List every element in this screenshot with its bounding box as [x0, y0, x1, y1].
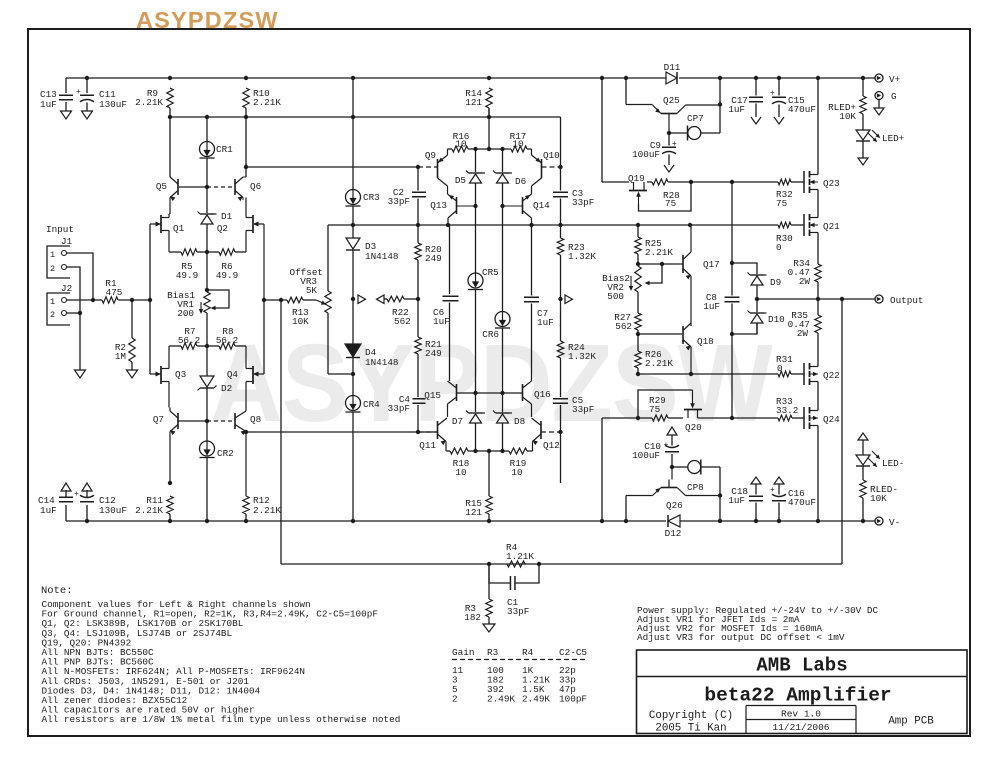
- transistor Q14: [522, 197, 524, 214]
- wire base rail y393: [457, 392, 523, 394]
- transistor Q18: [682, 326, 684, 344]
- transistor Q15: [456, 384, 458, 401]
- watermark center: [210, 323, 773, 445]
- resistor R21: [415, 337, 421, 354]
- svg-text:470uF: 470uF: [788, 104, 816, 115]
- svg-text:Output: Output: [890, 295, 923, 306]
- node R7/R8: [205, 344, 209, 348]
- resistor R32: [778, 179, 791, 185]
- svg-text:Q17: Q17: [703, 259, 720, 270]
- node Q26 collector: [670, 465, 674, 469]
- wire J1 pin1 to R1: [67, 253, 94, 300]
- svg-text:C2-C5: C2-C5: [559, 647, 587, 658]
- svg-text:121: 121: [465, 97, 482, 108]
- svg-text:33pF: 33pF: [388, 196, 410, 207]
- svg-text:D1: D1: [221, 211, 233, 222]
- node Q2/Q4 gates: [262, 298, 266, 302]
- wire C8 column: [731, 182, 733, 296]
- svg-text:Q23: Q23: [823, 178, 840, 189]
- wire y167 Q6 to Q9: [246, 166, 418, 168]
- ground below J2: [75, 370, 86, 378]
- wire Q26 right: [686, 495, 721, 497]
- transistor Q2: [252, 215, 254, 233]
- resistor R11: [168, 481, 172, 485]
- LED+ diode: [862, 114, 864, 130]
- current source CR3: [352, 78, 354, 141]
- arrow to V- below C9: [668, 160, 670, 165]
- svg-text:0: 0: [777, 363, 783, 374]
- svg-text:130uF: 130uF: [99, 505, 127, 516]
- svg-text:75: 75: [776, 198, 787, 209]
- svg-text:562: 562: [394, 316, 411, 327]
- transistor Q17: [682, 255, 684, 273]
- svg-text:1uF: 1uF: [433, 316, 450, 327]
- svg-text:Q16: Q16: [534, 389, 551, 400]
- resistor R16: [452, 146, 468, 152]
- svg-text:Q11: Q11: [419, 440, 436, 451]
- current source CR5: [468, 273, 483, 288]
- wire gate rail y418 right: [698, 417, 779, 419]
- svg-text:2: 2: [452, 694, 458, 705]
- resistor R8: [235, 345, 246, 347]
- resistor R18: [446, 450, 450, 452]
- svg-text:500: 500: [607, 291, 624, 302]
- svg-text:AMB Labs: AMB Labs: [756, 655, 847, 677]
- capacitor C11: [86, 78, 88, 93]
- transistor Q13: [456, 197, 458, 214]
- svg-text:Input: Input: [46, 224, 74, 235]
- svg-text:Q9: Q9: [425, 150, 436, 161]
- wire Q1 gate column: [149, 224, 151, 374]
- transistor Q21 (N-MOSFET): [803, 214, 805, 236]
- node R27/R26: [636, 332, 640, 336]
- node Q18 emitter on rail: [689, 372, 693, 376]
- wire V+ rail: [66, 77, 666, 79]
- svg-text:G: G: [891, 91, 897, 102]
- svg-text:R3: R3: [487, 647, 499, 658]
- node R28 right: [689, 180, 693, 184]
- svg-text:249: 249: [425, 348, 442, 359]
- resistor R6: [235, 251, 246, 253]
- capacitor C6 column: [449, 225, 451, 294]
- wire output: [757, 298, 875, 300]
- resistor R17: [511, 146, 527, 152]
- svg-text:LED+: LED+: [882, 133, 905, 144]
- svg-text:Note:: Note:: [41, 585, 73, 597]
- svg-text:+: +: [664, 441, 669, 450]
- resistor R30: [778, 222, 791, 228]
- wire rail y149: [448, 148, 453, 150]
- svg-text:1.32K: 1.32K: [568, 251, 596, 262]
- svg-text:Q3: Q3: [175, 369, 186, 380]
- svg-text:R4: R4: [522, 647, 534, 658]
- svg-text:75: 75: [665, 198, 676, 209]
- svg-text:1uF: 1uF: [537, 317, 554, 328]
- svg-text:+: +: [770, 89, 775, 98]
- ground below C11: [82, 111, 93, 119]
- diode D11: [666, 72, 677, 84]
- resistor R20: [417, 225, 419, 243]
- title block rev box: [746, 705, 856, 707]
- svg-text:1uF: 1uF: [703, 301, 720, 312]
- svg-text:+: +: [770, 486, 775, 495]
- resistor R28: [647, 181, 652, 183]
- svg-text:100uF: 100uF: [632, 149, 660, 160]
- wire x602 top column: [601, 78, 603, 182]
- svg-text:CR2: CR2: [217, 448, 234, 459]
- capacitor C7 column: [531, 225, 533, 296]
- node Q7/Q8 bases: [205, 419, 209, 423]
- resistor R27: [635, 313, 641, 330]
- svg-text:Q20: Q20: [685, 422, 702, 433]
- terminal Output: [875, 295, 883, 303]
- svg-text:Q15: Q15: [424, 390, 441, 401]
- svg-text:1M: 1M: [115, 351, 126, 362]
- resistor R22: [384, 298, 387, 300]
- svg-text:D10: D10: [768, 314, 785, 325]
- capacitor C12: [86, 505, 88, 521]
- svg-text:2.21K: 2.21K: [645, 247, 673, 258]
- svg-text:56.2: 56.2: [216, 335, 238, 346]
- diode D4: [352, 299, 354, 344]
- svg-text:Q1: Q1: [173, 223, 185, 234]
- node R20/R22: [416, 297, 420, 301]
- wire J1 pin2 / J2 pin2 ground: [67, 267, 81, 370]
- arrow from V+ above C10: [667, 427, 677, 435]
- diode D12: [668, 515, 680, 527]
- wire R14 to rail149: [488, 108, 490, 149]
- current source CP7: [669, 132, 688, 134]
- svg-text:2.21K: 2.21K: [645, 358, 673, 369]
- svg-text:33pF: 33pF: [572, 197, 594, 208]
- terminal V+: [875, 74, 883, 82]
- resistor R9: [167, 88, 173, 108]
- wire Q18 base: [638, 333, 682, 335]
- resistor R12: [243, 496, 249, 514]
- svg-text:Rev 1.0: Rev 1.0: [781, 709, 821, 720]
- net arrow right at x358: [358, 295, 366, 304]
- svg-text:Q18: Q18: [697, 336, 714, 347]
- svg-text:121: 121: [465, 507, 482, 518]
- capacitor C3: [560, 167, 562, 191]
- svg-text:10: 10: [512, 139, 523, 150]
- transistor Q7: [177, 413, 179, 429]
- svg-text:Adjust VR3 for output DC offse: Adjust VR3 for output DC offset < 1mV: [637, 632, 845, 643]
- transistor Q25: [661, 113, 677, 115]
- resistor RLED-: [860, 480, 866, 498]
- wire gate rail y182 right: [691, 181, 778, 183]
- svg-text:D9: D9: [770, 277, 781, 288]
- capacitor C8: [731, 304, 733, 419]
- current source CR6: [495, 312, 510, 327]
- LED- diode: [856, 455, 870, 465]
- wire Q25 base drop: [625, 78, 627, 105]
- ground arrow above C12: [82, 483, 92, 491]
- current source CR4: [352, 374, 354, 396]
- diode D10: [756, 299, 758, 312]
- svg-text:D6: D6: [515, 176, 526, 187]
- svg-text:Q22: Q22: [823, 370, 840, 381]
- wire gate rail y418: [602, 417, 652, 419]
- svg-text:LED-: LED-: [882, 458, 904, 469]
- wire Q26 left to V-: [626, 495, 653, 497]
- node Q13 base / D5: [473, 204, 477, 208]
- wire gate rail y225: [353, 224, 778, 226]
- svg-text:200: 200: [177, 308, 194, 319]
- node x720 rail tap: [719, 78, 721, 133]
- wire feedback left vertical: [280, 300, 282, 564]
- terminal G: [875, 92, 883, 100]
- transistor Q23 (N-MOSFET): [803, 171, 805, 193]
- svg-text:1: 1: [50, 297, 55, 307]
- svg-text:Amp PCB: Amp PCB: [888, 716, 934, 728]
- arrow above LED-: [858, 433, 868, 440]
- svg-text:1: 1: [50, 250, 55, 260]
- transistor Q9 (PNP cascode): [437, 159, 439, 178]
- capacitor C2: [417, 167, 419, 191]
- wire Q17 base: [638, 263, 683, 265]
- trimmer VR3: [316, 300, 324, 304]
- zener D2: [206, 346, 208, 376]
- node Q14 base / D6: [500, 204, 504, 208]
- transistor Q6: [234, 179, 236, 195]
- diode D3: [352, 225, 354, 238]
- transistor Q20 (JFET): [684, 409, 702, 411]
- capacitor C9: [668, 133, 670, 146]
- svg-text:100pF: 100pF: [559, 694, 587, 705]
- svg-text:56.2: 56.2: [178, 335, 200, 346]
- diode D9: [732, 263, 757, 274]
- capacitor C4: [417, 395, 419, 397]
- node Q5/Q6 bases: [205, 185, 209, 189]
- svg-text:10K: 10K: [870, 493, 887, 504]
- wire reference rail y117: [169, 108, 171, 117]
- resistor R29: [652, 415, 668, 421]
- zener D8: [502, 393, 504, 412]
- svg-text:2.49K: 2.49K: [522, 694, 550, 705]
- svg-text:Q14: Q14: [533, 200, 550, 211]
- node output R34/R35: [816, 297, 820, 301]
- trimmer VR2: [647, 264, 662, 283]
- svg-text:Q10: Q10: [543, 150, 560, 161]
- svg-text:CP8: CP8: [687, 482, 704, 493]
- svg-text:Q5: Q5: [156, 181, 167, 192]
- node R25/VR2: [636, 262, 640, 266]
- svg-text:+: +: [74, 490, 79, 499]
- svg-text:33pF: 33pF: [388, 403, 410, 414]
- svg-text:V+: V+: [889, 74, 901, 85]
- capacitor C16: [774, 477, 784, 484]
- node Q25 emitter: [667, 131, 671, 135]
- svg-text:Q4: Q4: [227, 369, 239, 380]
- svg-text:475: 475: [106, 287, 123, 298]
- capacitor C13: [65, 78, 67, 93]
- svg-text:1N4148: 1N4148: [365, 357, 398, 368]
- wire VAS input y432 left: [246, 431, 438, 433]
- svg-text:D8: D8: [514, 416, 525, 427]
- net arrow left at x376: [377, 295, 385, 304]
- wire drive rail y374: [638, 373, 778, 375]
- svg-text:2W: 2W: [799, 276, 811, 287]
- zener D6: [502, 149, 504, 172]
- capacitor C14: [65, 505, 67, 521]
- svg-text:Q12: Q12: [543, 440, 560, 451]
- svg-text:Q19: Q19: [628, 173, 645, 184]
- svg-text:V-: V-: [889, 517, 900, 528]
- svg-text:1N4148: 1N4148: [365, 251, 398, 262]
- svg-text:10: 10: [455, 139, 466, 150]
- svg-text:1uF: 1uF: [40, 99, 57, 110]
- transistor Q4: [252, 366, 254, 384]
- resistor R25: [637, 225, 639, 237]
- transistor Q26: [671, 467, 673, 480]
- current source CR1: [206, 117, 208, 142]
- resistor R23: [560, 225, 562, 238]
- trimmer VR1: [204, 292, 210, 313]
- transistor Q8: [234, 413, 236, 429]
- svg-text:249: 249: [425, 253, 442, 264]
- ground below LED+: [858, 158, 868, 165]
- svg-text:49.9: 49.9: [176, 270, 198, 281]
- current source CP8: [672, 466, 688, 468]
- zener D5: [475, 149, 477, 172]
- svg-text:75: 75: [649, 404, 660, 415]
- svg-text:2.21K: 2.21K: [135, 97, 163, 108]
- svg-text:11/21/2006: 11/21/2006: [772, 722, 829, 733]
- wire R10 to Q6: [245, 117, 247, 177]
- ground below R3: [483, 624, 495, 632]
- ground below R2: [127, 370, 138, 378]
- ground below C13: [61, 111, 72, 119]
- svg-text:2.49K: 2.49K: [487, 694, 515, 705]
- wire R9 to Q5: [169, 117, 171, 177]
- capacitor C10: [665, 451, 679, 453]
- svg-text:D12: D12: [665, 528, 682, 539]
- svg-text:Q8: Q8: [250, 414, 261, 425]
- capacitor C5: [560, 395, 562, 397]
- svg-text:beta22 Amplifier: beta22 Amplifier: [704, 685, 891, 707]
- svg-text:10K: 10K: [839, 111, 856, 122]
- transistor Q3: [160, 366, 162, 384]
- svg-text:CR4: CR4: [363, 399, 380, 410]
- wire VR3 bracket: [327, 225, 329, 291]
- svg-text:CP7: CP7: [687, 113, 704, 124]
- svg-text:CR1: CR1: [216, 144, 233, 155]
- svg-text:10K: 10K: [292, 316, 309, 327]
- svg-text:Q26: Q26: [666, 500, 683, 511]
- transistor Q11: [437, 421, 439, 439]
- transistor Q16: [522, 384, 524, 401]
- wire VAS input y432 right stub: [558, 430, 562, 434]
- zener D1: [206, 187, 208, 213]
- node D3/D4 mid: [351, 297, 355, 301]
- svg-text:2.21K: 2.21K: [253, 97, 281, 108]
- svg-text:Q21: Q21: [823, 221, 840, 232]
- svg-text:1.21K: 1.21K: [506, 551, 534, 562]
- svg-text:10: 10: [455, 467, 466, 478]
- resistor R3: [488, 564, 490, 599]
- svg-text:0: 0: [776, 242, 782, 253]
- svg-text:All resistors are 1/8W 1% meta: All resistors are 1/8W 1% metal film typ…: [42, 714, 401, 725]
- ground arrow above C14: [61, 483, 71, 491]
- resistor R19: [509, 448, 527, 454]
- resistor R14: [486, 88, 492, 108]
- svg-text:2W: 2W: [797, 328, 809, 339]
- transistor Q12: [540, 421, 542, 439]
- resistor R31: [778, 371, 791, 377]
- svg-text:2005 Ti Kan: 2005 Ti Kan: [655, 723, 726, 735]
- wire J2 pin1: [67, 299, 94, 301]
- svg-text:1.32K: 1.32K: [568, 351, 596, 362]
- capacitor C1 loop: [489, 564, 510, 583]
- resistor R7: [169, 345, 181, 347]
- resistor R33: [778, 415, 792, 421]
- transistor Q5: [177, 179, 179, 195]
- resistor R10: [243, 88, 249, 108]
- resistor R24: [560, 299, 562, 341]
- wire feedback horizontal: [281, 563, 842, 565]
- svg-text:10: 10: [511, 467, 522, 478]
- resistor R35: [817, 299, 819, 315]
- node CR3/VR3 top: [351, 223, 355, 227]
- resistor R13: [264, 299, 287, 301]
- svg-text:D7: D7: [452, 416, 463, 427]
- terminal V-: [875, 517, 883, 525]
- svg-text:1uF: 1uF: [40, 505, 57, 516]
- svg-text:33pF: 33pF: [572, 404, 594, 415]
- capacitor C15: [778, 78, 780, 96]
- resistor R15: [488, 451, 490, 496]
- svg-text:+: +: [76, 88, 81, 97]
- capacitor C18: [751, 477, 761, 484]
- transistor Q24 (P-MOSFET): [803, 407, 805, 429]
- svg-text:Q24: Q24: [823, 414, 840, 425]
- capacitor C17: [755, 78, 757, 96]
- transistor Q19 (JFET): [629, 190, 647, 192]
- svg-text:Q6: Q6: [250, 181, 261, 192]
- resistor RLED+: [862, 78, 864, 96]
- svg-text:Copyright (C): Copyright (C): [649, 710, 733, 722]
- svg-text:2.21K: 2.21K: [135, 505, 163, 516]
- resistor R26: [637, 334, 639, 351]
- svg-text:Q25: Q25: [663, 95, 680, 106]
- wire R18/R19 rail: [468, 450, 509, 452]
- node output mid D9/D10: [755, 297, 759, 301]
- node R26 bottom: [636, 372, 640, 376]
- svg-text:2.21K: 2.21K: [253, 505, 281, 516]
- transistor Q1: [160, 215, 162, 233]
- svg-text:33pF: 33pF: [507, 606, 529, 617]
- svg-text:Gain: Gain: [452, 647, 474, 658]
- svg-text:CR6: CR6: [482, 329, 499, 340]
- svg-text:100uF: 100uF: [632, 450, 660, 461]
- svg-text:Q2: Q2: [217, 223, 228, 234]
- wire feedback vertical: [841, 299, 843, 564]
- resistor R4: [507, 561, 525, 567]
- node R5/R6: [205, 250, 209, 254]
- node R1/R2: [130, 298, 134, 302]
- resistor R1: [93, 299, 102, 301]
- svg-text:182: 182: [464, 612, 481, 623]
- zener D7: [475, 393, 477, 412]
- wire x602 bottom column: [601, 418, 603, 521]
- svg-text:49.9: 49.9: [216, 270, 238, 281]
- svg-text:33.2: 33.2: [776, 405, 798, 416]
- node D4/VR3 bottom: [351, 372, 355, 376]
- svg-text:D2: D2: [221, 383, 232, 394]
- svg-text:CR5: CR5: [482, 267, 499, 278]
- svg-text:130uF: 130uF: [99, 99, 127, 110]
